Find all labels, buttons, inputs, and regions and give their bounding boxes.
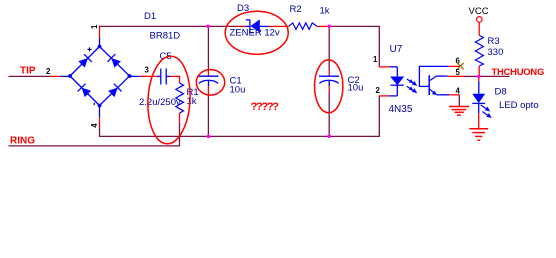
svg-text:LED opto: LED opto bbox=[499, 100, 539, 111]
optocoupler U7 LED bbox=[390, 67, 404, 96]
zener D3 right pin bbox=[260, 25, 278, 27]
ground (D8) bbox=[469, 129, 488, 140]
pin number 2 (U7) bbox=[376, 86, 381, 95]
svg-text:1: 1 bbox=[90, 24, 99, 29]
annotation ????? bbox=[251, 101, 280, 113]
designator R2 bbox=[290, 4, 302, 15]
diode D1d (bottom-right arm) bbox=[107, 84, 121, 98]
U7 collector pin 5 stub bbox=[448, 75, 465, 77]
annotation ellipse around C2 bbox=[315, 60, 343, 113]
net label THCHUONG bbox=[492, 66, 545, 77]
svg-text:TIP: TIP bbox=[20, 66, 36, 77]
junction C1 bottom bbox=[207, 135, 211, 139]
capacitor C1 lower wire bbox=[207, 86, 209, 136]
pin number 6 (U7) bbox=[456, 57, 461, 66]
wire top rail left segment bbox=[99, 25, 238, 27]
wire RING net bbox=[9, 145, 180, 147]
capacitor C2 bbox=[319, 76, 339, 86]
value 330 bbox=[488, 47, 504, 58]
optocoupler U7 LED pin2 stub bbox=[379, 95, 398, 97]
svg-text:U7: U7 bbox=[390, 44, 403, 55]
wire TIP net bbox=[9, 75, 51, 77]
svg-text:3: 3 bbox=[145, 66, 150, 75]
designator D8 bbox=[495, 87, 507, 98]
junction C2 bottom bbox=[327, 134, 331, 138]
designator R1 bbox=[187, 87, 199, 98]
net label TIP bbox=[20, 66, 36, 77]
capacitor C5 right pin / wire to R1 bbox=[166, 76, 180, 83]
svg-text:THCHUONG: THCHUONG bbox=[492, 66, 545, 77]
capacitor C2 lower wire bbox=[328, 86, 330, 136]
svg-text:VCC: VCC bbox=[469, 6, 489, 17]
pin number 2 (bridge left) bbox=[46, 67, 51, 76]
power port VCC bbox=[469, 6, 489, 35]
LED D8 bbox=[472, 94, 485, 114]
svg-text:?????: ????? bbox=[251, 101, 280, 113]
svg-text:R3: R3 bbox=[488, 36, 500, 47]
value 1k (R2) bbox=[320, 6, 330, 17]
junction R2/C2 top bbox=[327, 25, 331, 29]
U7 phototransistor bbox=[429, 75, 449, 95]
bridge pin 1 (top) stub bbox=[99, 26, 101, 47]
capacitor C5 bbox=[161, 69, 166, 85]
junction C1 top bbox=[206, 25, 210, 29]
value LED opto bbox=[499, 100, 539, 111]
svg-text:RING: RING bbox=[10, 136, 35, 147]
optocoupler U7 LED pin1 stub bbox=[379, 66, 398, 68]
no-connect X on pin 6 bbox=[457, 63, 464, 70]
svg-text:2.2u/250v: 2.2u/250v bbox=[139, 97, 181, 108]
resistor R3 bbox=[475, 35, 483, 65]
annotation ellipse around D3 bbox=[225, 11, 288, 54]
designator C1 bbox=[230, 76, 242, 87]
resistor R1 bbox=[176, 83, 184, 113]
svg-text:1: 1 bbox=[373, 55, 378, 64]
diode D1a (top-left arm) bbox=[78, 54, 92, 68]
pin number 3 bbox=[145, 66, 150, 75]
svg-text:4: 4 bbox=[456, 87, 461, 96]
bridge pin 3 stub bbox=[130, 75, 161, 77]
D8 light arrow 1 bbox=[481, 105, 490, 112]
svg-text:R2: R2 bbox=[290, 4, 302, 15]
svg-text:2: 2 bbox=[376, 86, 381, 95]
pin number 1 (U7) bbox=[373, 55, 378, 64]
designator U7 bbox=[390, 44, 403, 55]
capacitor C1 branch upper wire bbox=[207, 26, 209, 76]
value 4N35 bbox=[389, 104, 413, 115]
resistor R2 bbox=[289, 23, 317, 30]
wire zener to R2 bbox=[278, 25, 290, 27]
bridge rectifier D1 body bbox=[68, 45, 131, 108]
value 10u (C2) bbox=[348, 83, 364, 94]
wire RING to R1 vertical bbox=[179, 124, 181, 147]
svg-text:D8: D8 bbox=[495, 87, 507, 98]
pin number 5 (U7) bbox=[456, 68, 461, 77]
ground (U7 emitter) bbox=[449, 107, 469, 116]
wire emitter to ground bbox=[458, 95, 460, 107]
designator D3 bbox=[237, 3, 249, 14]
value 2.2u/250v bbox=[139, 97, 181, 108]
designator C5 bbox=[160, 51, 172, 62]
svg-text:ZENER 12v: ZENER 12v bbox=[230, 28, 280, 39]
bridge rectifier D1 pin 2 stub bbox=[50, 75, 70, 77]
wire pin5 to junction bbox=[464, 75, 479, 77]
bridge pin 4 (bottom) stub bbox=[99, 106, 101, 128]
svg-text:5: 5 bbox=[456, 68, 461, 77]
svg-text:4N35: 4N35 bbox=[389, 104, 413, 115]
designator R3 bbox=[488, 36, 500, 47]
zener D3 left pin bbox=[238, 25, 250, 27]
value 1k (R1) bbox=[187, 96, 197, 107]
annotation ellipse around C1 bbox=[196, 70, 224, 96]
svg-text:10u: 10u bbox=[348, 83, 364, 94]
U7 emitter pin 4 stub bbox=[449, 94, 459, 96]
svg-text:1k: 1k bbox=[320, 6, 330, 17]
svg-text:D1: D1 bbox=[144, 11, 156, 22]
LED D8 cathode wire bbox=[478, 113, 480, 129]
svg-text:10u: 10u bbox=[230, 85, 246, 96]
resistor R3 bottom pin bbox=[478, 66, 480, 77]
svg-text:BR81D: BR81D bbox=[150, 31, 181, 42]
net label RING bbox=[10, 136, 35, 147]
bridge minus mark bbox=[93, 103, 95, 106]
junction THCHUONG node bbox=[477, 75, 481, 79]
designator C2 bbox=[348, 75, 360, 86]
wire top rail right segment to U7 bbox=[329, 26, 379, 67]
bridge plus mark bbox=[88, 47, 92, 51]
pin number 4 (rotated, bridge bottom) bbox=[90, 123, 99, 128]
resistor R2 right pin bbox=[317, 25, 329, 27]
pin number 4 (U7) bbox=[456, 87, 461, 96]
value 10u (C1) bbox=[230, 85, 246, 96]
annotation ellipse around C5/R1 bbox=[146, 55, 193, 145]
svg-text:330: 330 bbox=[488, 47, 504, 58]
D8 light arrow 2 bbox=[482, 112, 491, 119]
diode D1c (bottom-left arm) bbox=[78, 84, 92, 98]
svg-text:4: 4 bbox=[90, 123, 99, 128]
pin number 1 (rotated, bridge top) bbox=[90, 24, 99, 29]
value ZENER 12v bbox=[230, 28, 280, 39]
designator D1 bbox=[144, 11, 156, 22]
U7 light arrow 1 bbox=[407, 79, 418, 86]
svg-text:2: 2 bbox=[46, 67, 51, 76]
U7 phototransistor base loop to pin 6 bbox=[419, 66, 460, 86]
value BR81D bbox=[150, 31, 181, 42]
wire bottom rail bbox=[100, 96, 380, 136]
resistor R1 bottom pin bbox=[179, 113, 181, 124]
capacitor C2 branch upper wire bbox=[328, 26, 330, 76]
diode D1b (top-right arm) bbox=[107, 54, 121, 68]
zener diode D3 bbox=[246, 19, 260, 32]
wire THCHUONG net bbox=[479, 75, 510, 77]
LED D8 anode wire bbox=[478, 76, 480, 93]
U7 light arrow 2 bbox=[407, 86, 418, 93]
svg-text:1k: 1k bbox=[187, 96, 197, 107]
capacitor C1 bbox=[199, 76, 219, 86]
